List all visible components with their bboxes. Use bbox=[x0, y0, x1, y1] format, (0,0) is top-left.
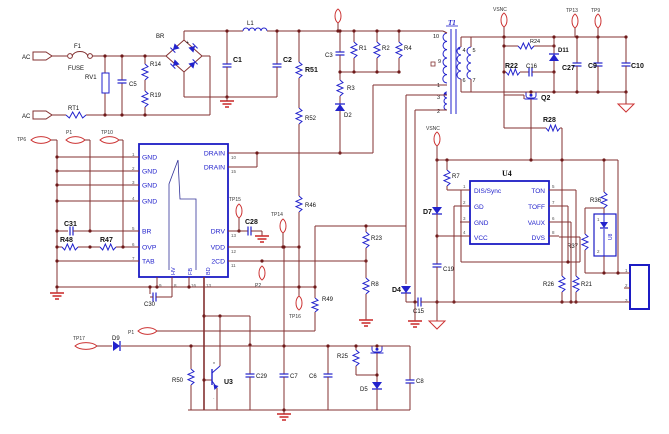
svg-text:R24: R24 bbox=[530, 39, 540, 45]
svg-text:R23: R23 bbox=[371, 236, 383, 242]
svg-text:C1: C1 bbox=[233, 57, 242, 64]
svg-text:TON: TON bbox=[531, 188, 545, 195]
svg-text:R52: R52 bbox=[305, 116, 317, 122]
svg-text:R19: R19 bbox=[150, 93, 162, 99]
svg-text:DRAIN: DRAIN bbox=[204, 165, 225, 172]
svg-text:C3: C3 bbox=[325, 53, 333, 59]
svg-text:C31: C31 bbox=[64, 221, 77, 228]
svg-text:R8: R8 bbox=[371, 282, 379, 288]
svg-text:U4: U4 bbox=[502, 169, 512, 178]
svg-text:RV1: RV1 bbox=[85, 75, 97, 81]
svg-text:VSNC: VSNC bbox=[426, 126, 440, 132]
svg-text:BR: BR bbox=[142, 229, 152, 236]
svg-text:P1: P1 bbox=[128, 330, 134, 336]
svg-text:VAUX: VAUX bbox=[528, 220, 546, 227]
svg-text:R37: R37 bbox=[567, 244, 579, 250]
svg-text:C16: C16 bbox=[526, 64, 538, 70]
svg-text:11: 11 bbox=[231, 263, 236, 268]
svg-text:R3: R3 bbox=[347, 86, 355, 92]
svg-text:R51: R51 bbox=[305, 67, 318, 74]
svg-text:GND: GND bbox=[474, 220, 489, 227]
svg-text:R2: R2 bbox=[382, 46, 390, 52]
svg-text:R49: R49 bbox=[322, 297, 334, 303]
svg-text:7: 7 bbox=[473, 78, 476, 84]
svg-text:TP14: TP14 bbox=[271, 212, 283, 218]
svg-text:P2: P2 bbox=[255, 283, 261, 289]
svg-text:Q2: Q2 bbox=[541, 95, 550, 102]
svg-text:TP13: TP13 bbox=[566, 8, 578, 14]
svg-text:TAB: TAB bbox=[142, 259, 155, 266]
svg-text:GND: GND bbox=[142, 199, 157, 206]
svg-text:D5: D5 bbox=[360, 387, 368, 393]
svg-text:DIS/Sync: DIS/Sync bbox=[474, 188, 502, 195]
svg-text:DVS: DVS bbox=[532, 235, 546, 242]
svg-text:HV: HV bbox=[171, 267, 177, 275]
svg-text:TOFF: TOFF bbox=[528, 204, 545, 211]
svg-text:C7: C7 bbox=[290, 374, 298, 380]
svg-text:DRV: DRV bbox=[211, 229, 226, 236]
svg-text:GND: GND bbox=[142, 169, 157, 176]
svg-text:U8: U8 bbox=[608, 233, 614, 240]
svg-text:FUSE: FUSE bbox=[68, 66, 84, 72]
svg-text:R36: R36 bbox=[590, 198, 602, 204]
svg-text:R47: R47 bbox=[100, 237, 113, 244]
svg-text:FB: FB bbox=[188, 268, 194, 275]
svg-text:R1: R1 bbox=[359, 46, 367, 52]
svg-text:TP17: TP17 bbox=[73, 336, 85, 342]
svg-text:AC: AC bbox=[22, 55, 31, 61]
svg-text:R21: R21 bbox=[581, 282, 593, 288]
svg-text:TP6: TP6 bbox=[17, 137, 26, 143]
svg-text:TP15: TP15 bbox=[229, 197, 241, 203]
svg-text:13: 13 bbox=[231, 233, 237, 238]
svg-text:R4: R4 bbox=[404, 46, 412, 52]
svg-text:P1: P1 bbox=[66, 130, 72, 136]
svg-text:R46: R46 bbox=[305, 203, 317, 209]
svg-text:10: 10 bbox=[433, 34, 439, 40]
svg-text:GND: GND bbox=[142, 155, 157, 162]
svg-text:D11: D11 bbox=[558, 48, 569, 54]
svg-text:TP16: TP16 bbox=[289, 314, 301, 320]
svg-text:D7: D7 bbox=[423, 209, 432, 216]
svg-text:C29: C29 bbox=[256, 374, 268, 380]
svg-text:R25: R25 bbox=[337, 354, 349, 360]
svg-text:C9: C9 bbox=[588, 63, 597, 70]
svg-text:+: + bbox=[186, 40, 189, 46]
svg-text:C27: C27 bbox=[562, 65, 575, 72]
svg-text:C8: C8 bbox=[416, 379, 424, 385]
svg-text:GD: GD bbox=[474, 204, 484, 211]
svg-text:R22: R22 bbox=[505, 63, 518, 70]
svg-text:DRAIN: DRAIN bbox=[204, 151, 225, 158]
svg-text:D2: D2 bbox=[344, 113, 352, 119]
svg-text:R50: R50 bbox=[172, 378, 184, 384]
svg-text:D4: D4 bbox=[392, 287, 401, 294]
svg-text:VSNC: VSNC bbox=[493, 7, 507, 13]
svg-text:D9: D9 bbox=[112, 336, 120, 342]
svg-text:C19: C19 bbox=[443, 267, 455, 273]
svg-text:C28: C28 bbox=[245, 219, 258, 226]
svg-text:R48: R48 bbox=[60, 237, 73, 244]
svg-text:TP9: TP9 bbox=[591, 8, 600, 14]
svg-text:C30: C30 bbox=[144, 302, 156, 308]
svg-text:VCC: VCC bbox=[474, 235, 488, 242]
svg-text:C6: C6 bbox=[309, 374, 317, 380]
svg-text:n: n bbox=[213, 360, 215, 365]
svg-text:5: 5 bbox=[473, 48, 476, 54]
svg-text:3: 3 bbox=[437, 95, 440, 101]
svg-text:VDD: VDD bbox=[211, 245, 225, 252]
svg-text:2CD: 2CD bbox=[211, 259, 225, 266]
svg-text:GND: GND bbox=[142, 183, 157, 190]
svg-text:AC: AC bbox=[22, 114, 31, 120]
svg-text:9: 9 bbox=[438, 59, 441, 65]
svg-text:C10: C10 bbox=[631, 63, 644, 70]
svg-text:C2: C2 bbox=[283, 57, 292, 64]
svg-text:BD: BD bbox=[206, 267, 212, 275]
svg-text:1: 1 bbox=[437, 83, 440, 89]
svg-text:15: 15 bbox=[231, 169, 237, 174]
svg-text:BR: BR bbox=[156, 34, 165, 40]
svg-text:12: 12 bbox=[231, 249, 237, 254]
svg-text:10: 10 bbox=[231, 155, 237, 160]
svg-text:F1: F1 bbox=[74, 44, 82, 50]
svg-text:C5: C5 bbox=[129, 82, 137, 88]
svg-text:OVP: OVP bbox=[142, 245, 157, 252]
svg-text:R26: R26 bbox=[543, 282, 555, 288]
svg-text:R28: R28 bbox=[543, 117, 556, 124]
svg-text:TP10: TP10 bbox=[101, 130, 113, 136]
svg-text:4: 4 bbox=[463, 48, 466, 54]
svg-text:R7: R7 bbox=[452, 174, 460, 180]
svg-text:R14: R14 bbox=[150, 62, 162, 68]
svg-text:6: 6 bbox=[463, 78, 466, 84]
svg-text:U3: U3 bbox=[224, 379, 233, 386]
svg-text:L1: L1 bbox=[247, 21, 254, 27]
svg-text:RT1: RT1 bbox=[68, 106, 80, 112]
